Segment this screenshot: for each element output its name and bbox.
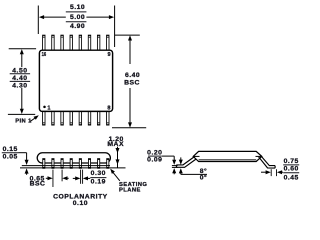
detail body seam right	[256, 155, 262, 157]
svg-text:0.75: 0.75	[284, 158, 299, 165]
0.15/0.05 leader	[19, 152, 27, 154]
dim 5.10/5.00/4.90 extension line left	[37, 6, 39, 35]
detail body	[193, 151, 262, 161]
svg-text:5.10: 5.10	[70, 4, 85, 11]
svg-text:0.10: 0.10	[73, 200, 88, 207]
PIN 1 leader arrow	[30, 117, 36, 121]
package bottom line left	[22, 165, 110, 167]
top view pins row bottom	[42, 112, 109, 126]
svg-text:0.09: 0.09	[147, 157, 162, 164]
svg-text:16: 16	[42, 52, 47, 58]
svg-text:BSC: BSC	[30, 181, 46, 188]
front view body	[37, 153, 110, 163]
svg-text:5.00: 5.00	[70, 14, 85, 21]
rule	[10, 73, 30, 75]
rule	[66, 11, 87, 13]
dim 4.50/4.40/4.30 extension line top	[9, 48, 36, 50]
0.75/0.60/0.45 ticks	[270, 169, 272, 176]
svg-text:4.90: 4.90	[70, 23, 85, 30]
svg-text:4.50: 4.50	[12, 67, 27, 74]
0.65 BSC extension lines	[52, 170, 54, 187]
svg-text:0.19: 0.19	[91, 179, 106, 186]
svg-text:6.40: 6.40	[125, 72, 140, 79]
0.15/0.05 lower arrow	[25, 168, 29, 173]
rule	[66, 21, 87, 23]
svg-text:8°: 8°	[200, 167, 208, 175]
dim line 5.00 left with arrow	[43, 16, 66, 18]
svg-text:1: 1	[47, 105, 50, 111]
seating plane line	[20, 167, 126, 169]
1.20 MAX dim line	[117, 147, 119, 168]
svg-text:4.30: 4.30	[12, 83, 27, 90]
0.20/0.09 lower arrow	[172, 168, 176, 173]
dim 5.10/5.00/4.90 extension line right	[114, 6, 116, 48]
svg-text:0.45: 0.45	[284, 174, 299, 181]
detail right lead	[259, 155, 276, 168]
dim line 6.40 bottom with arrow	[129, 88, 131, 124]
0.65 BSC arrows	[46, 177, 49, 179]
detail body inner bottom line	[199, 159, 257, 161]
detail body seam left	[193, 155, 199, 157]
svg-text:0.60: 0.60	[284, 166, 299, 173]
foot thickness arrows at 8deg vertex	[180, 157, 182, 160]
svg-text:BSC: BSC	[124, 79, 140, 86]
dim line 6.40 top with arrow	[129, 40, 131, 65]
dim line 4.40 top with arrow	[21, 54, 23, 68]
svg-text:PLANE: PLANE	[119, 187, 141, 193]
svg-text:9: 9	[107, 52, 110, 58]
8deg/0deg fraction rule	[181, 173, 207, 175]
svg-text:0.20: 0.20	[147, 150, 162, 157]
svg-text:0.15: 0.15	[3, 146, 18, 153]
svg-text:0.05: 0.05	[3, 154, 18, 161]
svg-text:8: 8	[107, 105, 110, 111]
dim 6.40 BSC extension line top	[115, 34, 140, 36]
pin 1 dot	[43, 106, 46, 109]
svg-text:MAX: MAX	[107, 141, 124, 148]
dim line 5.00 right with arrow	[86, 16, 110, 18]
detail left lead	[176, 156, 196, 167]
dim 6.40 BSC extension line bottom	[112, 127, 146, 129]
top view body	[39, 50, 112, 111]
dim 4.50/4.40/4.30 extension line bottom	[8, 113, 35, 115]
svg-text:4.40: 4.40	[12, 75, 27, 82]
0.30/0.19 extension lines	[80, 170, 82, 184]
svg-text:0.30: 0.30	[91, 170, 106, 177]
rule	[10, 80, 30, 82]
0.20/0.09 ticks	[172, 165, 178, 167]
front view leads	[42, 158, 109, 169]
foot length arrows	[261, 171, 267, 173]
seating plane leader	[113, 172, 120, 181]
svg-text:PIN 1: PIN 1	[15, 118, 32, 124]
top view pins row top	[42, 35, 109, 51]
0.20/0.09 leader	[162, 155, 174, 157]
0.30/0.19 arrows	[73, 177, 76, 179]
dim line 4.40 bottom with arrow	[21, 88, 23, 110]
svg-text:0°: 0°	[200, 174, 208, 182]
